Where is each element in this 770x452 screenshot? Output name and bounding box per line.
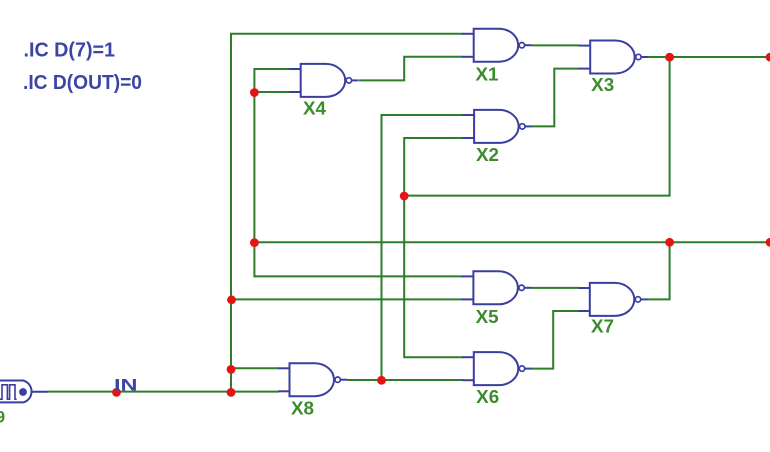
junction dot X8 input 1 branch [227,365,236,374]
wire X3 output feedback down and left [404,57,669,196]
wire branch to X5 input 2 [232,298,463,300]
junction dot right edge bottom [766,238,770,247]
nand gate X6 [462,352,531,385]
nand gate X1 [462,29,531,62]
junction dot X8 output [377,376,386,385]
wire left feedback loop to X4 input 1 and X5 input 1 [254,69,463,276]
junction dot X3 feedback tap [400,192,409,201]
wire X7 output up to feedback node [647,242,669,299]
svg-text:X7: X7 [591,316,614,337]
wire X4 output to X1 input 2 [359,57,463,81]
pulse source output stub [31,391,49,393]
wire X1 output to X3 input 1 [531,44,580,46]
svg-text:X1: X1 [476,63,499,84]
svg-text:X8: X8 [291,398,314,419]
wire branch to X4 input 2 [254,91,290,93]
pulse source V9 body [0,381,32,403]
junction dot X3 output [665,53,674,62]
wire X5 output to X7 input 1 [531,287,579,289]
wire X8 output to X6 input 2 [347,379,463,381]
junction dot X4 input 2 branch [250,88,259,97]
junction dot X5 input 2 branch [227,295,236,304]
wire long feedback horizontal to right edge [254,241,770,243]
junction dot feedback left [250,238,259,247]
svg-text:.IC D(7)=1: .IC D(7)=1 [24,39,116,61]
nand gate X4 [289,64,358,97]
wire X2 output to X3 input 2 [532,69,580,127]
svg-text:X4: X4 [303,98,327,119]
svg-text:9: 9 [0,409,5,427]
pulse source waveform glyph [0,385,17,399]
svg-text:.IC D(OUT)=0: .IC D(OUT)=0 [23,72,142,94]
svg-text:X5: X5 [476,306,499,327]
junction dot X7 output node [665,238,674,247]
nand gate X7 [578,283,647,316]
nand gate X2 [463,110,532,143]
wire vertical to X2 input 2 and X6 input 1 [404,138,463,357]
junction dot right edge top [766,53,770,62]
wire IN horizontal from source to X8 input 2 [48,391,280,393]
wire X6 output to X7 input 2 [531,311,579,369]
junction dot at IN riser [227,388,236,397]
junction dot IN [112,388,121,397]
svg-text:IN: IN [114,376,138,395]
pulse source pin dot [19,388,27,396]
wire X3 output to right edge [648,56,770,58]
nand gate X5 [462,271,531,304]
wire IN riser up left side and across to X1 input 1 [231,34,463,392]
nand gate X8 [278,363,347,396]
svg-text:X3: X3 [591,74,614,95]
wire branch to X8 input 1 [231,367,279,369]
svg-text:X6: X6 [476,386,499,407]
nand gate X3 [579,41,648,74]
svg-text:X2: X2 [476,144,499,165]
wire riser X8 output to X2 input 1 [382,115,464,380]
